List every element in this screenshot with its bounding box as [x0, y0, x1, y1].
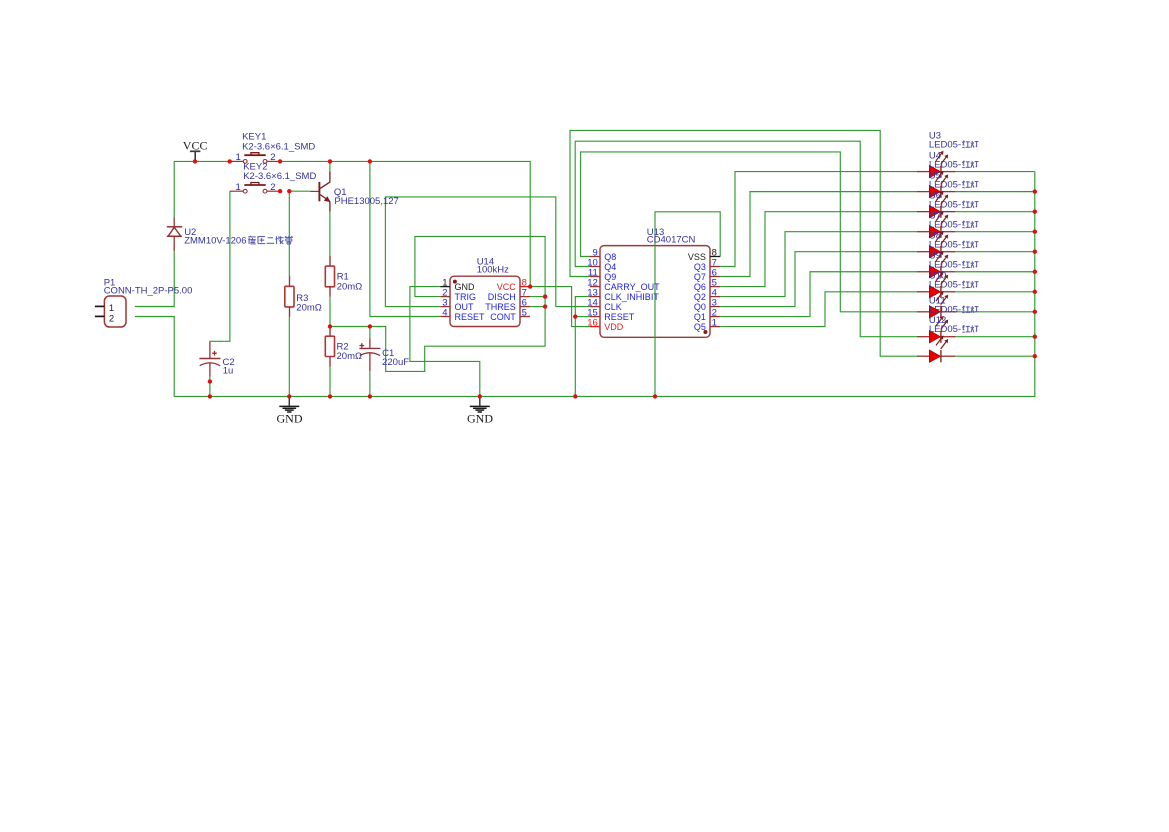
svg-text:1: 1	[236, 182, 241, 193]
svg-text:CONN-TH_2P-P5.00: CONN-TH_2P-P5.00	[104, 286, 193, 297]
svg-text:PHE13005,127: PHE13005,127	[334, 196, 398, 207]
svg-text:LED05-: LED05-	[929, 324, 961, 335]
svg-text:Q4: Q4	[604, 262, 616, 272]
svg-text:20mΩ: 20mΩ	[296, 303, 322, 314]
svg-text:Q3: Q3	[694, 262, 706, 272]
svg-text:THRES: THRES	[485, 302, 516, 312]
svg-text:GND: GND	[455, 282, 476, 292]
svg-text:Q1: Q1	[694, 312, 706, 322]
svg-text:1: 1	[712, 317, 717, 328]
svg-text:VDD: VDD	[604, 322, 624, 332]
svg-text:Q9: Q9	[604, 272, 616, 282]
svg-text:220uF: 220uF	[382, 357, 409, 368]
svg-text:Q8: Q8	[604, 252, 616, 262]
svg-text:5: 5	[522, 307, 527, 318]
svg-text:LED05-: LED05-	[929, 280, 961, 291]
svg-text:Q0: Q0	[694, 302, 706, 312]
svg-text:RESET: RESET	[455, 312, 486, 322]
svg-text:Q7: Q7	[694, 272, 706, 282]
svg-text:2: 2	[270, 182, 275, 193]
svg-text:CD4017CN: CD4017CN	[647, 235, 696, 246]
svg-text:20mΩ: 20mΩ	[337, 281, 363, 292]
svg-text:Q2: Q2	[694, 292, 706, 302]
svg-text:16: 16	[587, 317, 598, 328]
svg-text:CONT: CONT	[490, 312, 516, 322]
svg-text:OUT: OUT	[455, 302, 475, 312]
svg-text:LED05-: LED05-	[929, 139, 961, 150]
svg-text:GND: GND	[277, 411, 303, 425]
svg-text:VCC: VCC	[497, 282, 517, 292]
svg-text:RESET: RESET	[604, 312, 635, 322]
svg-text:K2-3.6×6.1_SMD: K2-3.6×6.1_SMD	[242, 142, 315, 153]
svg-text:Q6: Q6	[694, 282, 706, 292]
svg-text:K2-3.6×6.1_SMD: K2-3.6×6.1_SMD	[243, 171, 316, 182]
svg-text:1u: 1u	[223, 366, 234, 377]
svg-text:VSS: VSS	[688, 252, 706, 262]
svg-text:LED05-: LED05-	[929, 240, 961, 251]
svg-text:4: 4	[442, 307, 447, 318]
svg-text:2: 2	[270, 152, 275, 163]
svg-text:LED05-: LED05-	[929, 179, 961, 190]
svg-text:ZMM10V-1206: ZMM10V-1206	[184, 236, 246, 247]
svg-text:DISCH: DISCH	[488, 292, 516, 302]
svg-text:2: 2	[109, 313, 114, 324]
svg-text:CARRY_OUT: CARRY_OUT	[604, 282, 660, 292]
svg-text:LED05-: LED05-	[929, 199, 961, 210]
svg-text:LED05-: LED05-	[929, 305, 961, 316]
svg-text:LED05-: LED05-	[929, 260, 961, 271]
svg-text:TRIG: TRIG	[455, 292, 477, 302]
svg-text:GND: GND	[467, 411, 493, 425]
svg-text:CLK: CLK	[604, 302, 622, 312]
svg-text:VCC: VCC	[183, 138, 208, 152]
svg-text:CLK_INHIBIT: CLK_INHIBIT	[604, 292, 659, 302]
svg-text:Q5: Q5	[694, 322, 706, 332]
svg-text:LED05-: LED05-	[929, 159, 961, 170]
svg-text:1: 1	[236, 152, 241, 163]
svg-text:20mΩ: 20mΩ	[337, 351, 363, 362]
svg-text:100kHz: 100kHz	[477, 265, 509, 276]
svg-text:LED05-: LED05-	[929, 220, 961, 231]
